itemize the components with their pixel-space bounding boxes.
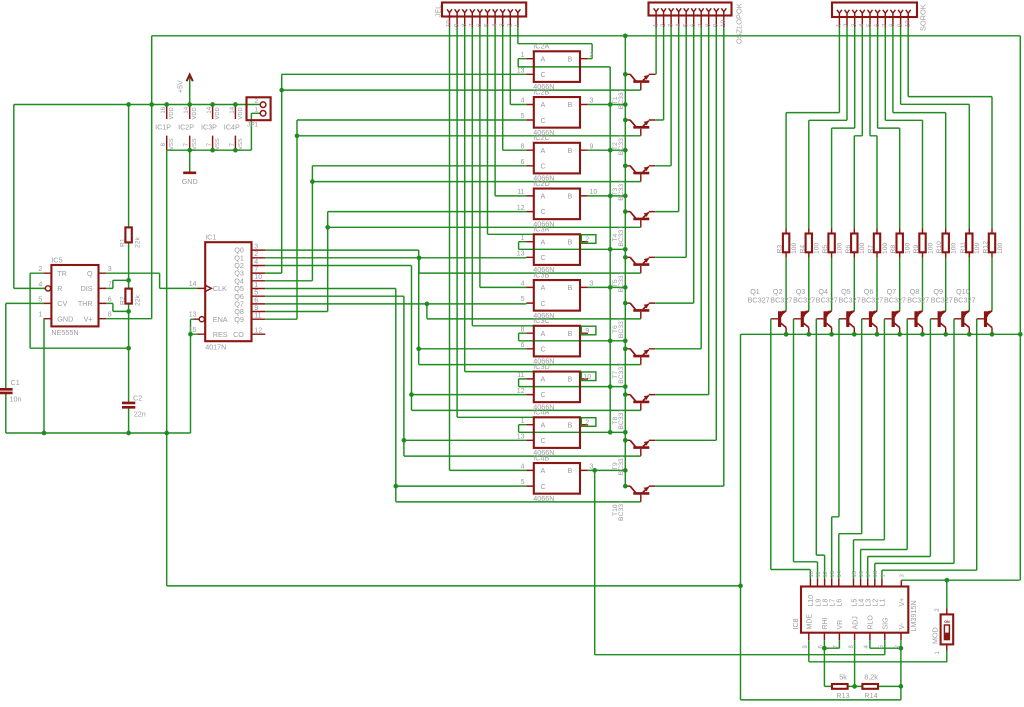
svg-text:1: 1	[521, 235, 525, 242]
svg-text:1: 1	[880, 574, 886, 577]
svg-text:IC2A: IC2A	[533, 42, 549, 51]
svg-text:C1: C1	[11, 378, 20, 387]
svg-text:C: C	[541, 207, 546, 216]
svg-text:5: 5	[866, 23, 873, 27]
svg-text:16: 16	[859, 571, 865, 577]
svg-text:5: 5	[682, 23, 689, 27]
svg-text:MOD: MOD	[930, 627, 939, 644]
svg-text:BC327: BC327	[861, 296, 883, 305]
svg-text:L10: L10	[808, 595, 815, 607]
svg-text:BC327: BC327	[816, 296, 838, 305]
svg-text:C: C	[541, 482, 546, 491]
svg-text:100: 100	[836, 242, 843, 254]
svg-text:1: 1	[254, 107, 258, 114]
svg-text:C: C	[541, 299, 546, 308]
svg-text:GND: GND	[57, 314, 73, 323]
svg-text:9: 9	[897, 23, 904, 27]
svg-text:13: 13	[517, 251, 525, 258]
svg-text:22k: 22k	[134, 294, 141, 306]
svg-text:IC2D: IC2D	[533, 179, 549, 188]
svg-text:4017N: 4017N	[205, 343, 226, 352]
svg-text:CO: CO	[233, 330, 244, 339]
svg-text:BC337: BC337	[618, 88, 625, 109]
svg-text:B: B	[568, 192, 573, 201]
svg-text:VSS: VSS	[215, 138, 221, 150]
svg-text:IC3P: IC3P	[201, 122, 217, 131]
svg-text:L5: L5	[851, 599, 858, 607]
svg-text:1: 1	[38, 312, 42, 319]
svg-text:VSS: VSS	[192, 138, 198, 150]
svg-text:12: 12	[823, 571, 829, 577]
svg-text:VDD: VDD	[192, 107, 198, 119]
svg-text:RLO: RLO	[868, 615, 875, 630]
svg-text:VSS: VSS	[169, 138, 175, 150]
svg-text:14: 14	[184, 106, 190, 113]
svg-text:B: B	[568, 466, 573, 475]
svg-text:6: 6	[521, 342, 525, 349]
svg-text:L6: L6	[837, 599, 844, 607]
svg-text:100: 100	[814, 242, 821, 254]
svg-text:BC327: BC327	[931, 296, 953, 305]
svg-text:3: 3	[900, 574, 906, 577]
svg-text:B: B	[568, 420, 573, 429]
svg-text:IC3C: IC3C	[533, 316, 549, 325]
svg-text:9: 9	[713, 23, 720, 27]
svg-text:15: 15	[852, 571, 858, 577]
svg-text:C: C	[541, 70, 546, 79]
svg-text:A: A	[541, 192, 546, 201]
svg-text:L4: L4	[858, 599, 865, 607]
svg-text:22n: 22n	[134, 410, 146, 419]
svg-text:BC327: BC327	[770, 296, 792, 305]
svg-text:BC337: BC337	[618, 180, 625, 201]
svg-text:A: A	[541, 100, 546, 109]
svg-text:2: 2	[585, 420, 589, 427]
svg-text:B: B	[568, 146, 573, 155]
svg-text:BC337: BC337	[618, 271, 625, 292]
svg-text:3: 3	[499, 23, 506, 27]
svg-text:R11: R11	[960, 241, 967, 253]
svg-text:8: 8	[521, 326, 525, 333]
svg-text:BC337: BC337	[618, 134, 625, 155]
svg-text:BC327: BC327	[748, 296, 770, 305]
svg-text:IC8: IC8	[791, 618, 800, 629]
svg-text:4: 4	[859, 23, 866, 27]
svg-text:A: A	[541, 420, 546, 429]
svg-text:14: 14	[230, 106, 236, 113]
svg-text:A: A	[541, 375, 546, 384]
svg-text:8: 8	[108, 312, 112, 319]
svg-text:BC337: BC337	[618, 226, 625, 247]
svg-text:BC337: BC337	[618, 317, 625, 338]
svg-text:IC1P: IC1P	[155, 122, 171, 131]
svg-text:L8: L8	[822, 599, 829, 607]
svg-text:R: R	[57, 284, 62, 293]
svg-text:B: B	[568, 329, 573, 338]
svg-text:JP1: JP1	[247, 122, 258, 129]
svg-text:R3: R3	[777, 245, 784, 254]
svg-text:1: 1	[652, 23, 659, 27]
svg-text:IC2C: IC2C	[533, 133, 549, 142]
svg-text:3: 3	[590, 98, 594, 105]
svg-text:9: 9	[590, 143, 594, 150]
svg-text:Q9: Q9	[234, 315, 244, 324]
svg-text:C2: C2	[133, 393, 142, 402]
svg-text:100: 100	[997, 242, 1004, 254]
svg-text:4: 4	[38, 281, 42, 288]
svg-text:B: B	[568, 375, 573, 384]
svg-text:R2: R2	[120, 296, 127, 305]
svg-text:V-: V-	[899, 622, 906, 629]
svg-text:IC2P: IC2P	[178, 122, 194, 131]
svg-text:VDD: VDD	[215, 107, 221, 119]
svg-text:2: 2	[507, 23, 514, 27]
svg-text:BC327: BC327	[839, 296, 861, 305]
svg-text:11: 11	[517, 189, 524, 196]
svg-text:BC327: BC327	[884, 296, 906, 305]
svg-text:VDD: VDD	[238, 107, 244, 119]
svg-text:IC5: IC5	[51, 255, 62, 264]
svg-text:3: 3	[851, 23, 858, 27]
svg-text:4: 4	[675, 23, 682, 27]
svg-text:IC3A: IC3A	[533, 225, 549, 234]
svg-text:10: 10	[583, 374, 591, 381]
svg-text:18: 18	[873, 571, 879, 577]
svg-text:R7: R7	[868, 245, 875, 254]
svg-text:5k: 5k	[839, 673, 847, 682]
svg-text:C: C	[541, 436, 546, 445]
svg-text:100: 100	[859, 242, 866, 254]
svg-text:BC337: BC337	[618, 363, 625, 384]
svg-text:8: 8	[521, 143, 525, 150]
svg-text:L1: L1	[880, 599, 887, 607]
svg-text:7: 7	[254, 267, 258, 274]
svg-text:3: 3	[108, 266, 112, 273]
svg-text:A: A	[541, 146, 546, 155]
svg-text:L7: L7	[830, 599, 837, 607]
svg-text:B: B	[568, 237, 573, 246]
svg-text:2: 2	[585, 237, 589, 244]
svg-text:NE555N: NE555N	[51, 328, 78, 337]
svg-text:2: 2	[38, 266, 42, 273]
svg-text:R8: R8	[890, 245, 897, 254]
svg-text:R10: R10	[936, 241, 943, 254]
svg-text:22k: 22k	[134, 236, 141, 248]
svg-text:14: 14	[207, 106, 213, 113]
svg-text:SOROK: SOROK	[919, 4, 928, 31]
svg-text:10: 10	[904, 20, 911, 27]
svg-text:BC337: BC337	[618, 454, 625, 475]
svg-text:IC4B: IC4B	[533, 453, 549, 462]
svg-text:3: 3	[590, 281, 594, 288]
svg-text:RHI: RHI	[822, 617, 829, 629]
svg-text:5: 5	[484, 23, 491, 27]
svg-text:4: 4	[521, 464, 525, 471]
svg-text:JEL: JEL	[434, 5, 443, 18]
svg-text:CLK: CLK	[213, 284, 227, 293]
svg-text:100: 100	[882, 242, 889, 254]
svg-text:ENA: ENA	[213, 315, 228, 324]
svg-text:17: 17	[866, 571, 872, 577]
svg-text:A: A	[541, 283, 546, 292]
svg-text:C: C	[541, 390, 546, 399]
svg-text:C: C	[541, 345, 546, 354]
svg-text:100: 100	[927, 242, 934, 254]
svg-text:10: 10	[590, 189, 598, 196]
svg-text:L2: L2	[873, 599, 880, 607]
svg-text:BC327: BC327	[907, 296, 929, 305]
svg-text:BC327: BC327	[793, 296, 815, 305]
svg-text:6: 6	[690, 23, 697, 27]
svg-text:100: 100	[974, 242, 981, 254]
svg-text:B: B	[568, 283, 573, 292]
svg-text:BC327: BC327	[954, 296, 976, 305]
svg-text:R5: R5	[822, 245, 829, 254]
svg-text:2: 2	[254, 98, 258, 105]
svg-text:R1: R1	[120, 238, 127, 247]
svg-text:4: 4	[521, 98, 525, 105]
svg-text:B: B	[568, 100, 573, 109]
svg-text:TR: TR	[57, 269, 67, 278]
svg-text:BC337: BC337	[618, 500, 625, 521]
svg-text:3: 3	[590, 464, 594, 471]
svg-text:6: 6	[874, 23, 881, 27]
svg-text:C: C	[541, 253, 546, 262]
svg-text:11: 11	[254, 313, 261, 320]
svg-text:13: 13	[517, 68, 525, 75]
svg-text:9: 9	[453, 23, 460, 27]
svg-text:R13: R13	[836, 691, 849, 700]
svg-text:8: 8	[705, 23, 712, 27]
svg-text:A: A	[541, 466, 546, 475]
svg-text:1: 1	[254, 282, 258, 289]
svg-text:10: 10	[809, 571, 815, 577]
svg-text:16: 16	[161, 106, 167, 113]
svg-text:5: 5	[38, 296, 42, 303]
svg-text:VR: VR	[837, 620, 844, 630]
svg-text:10: 10	[446, 20, 453, 27]
svg-text:5: 5	[254, 290, 258, 297]
svg-text:DIS: DIS	[81, 284, 93, 293]
svg-text:BC337: BC337	[618, 409, 625, 430]
svg-text:10: 10	[720, 20, 727, 27]
svg-text:VSS: VSS	[238, 138, 244, 150]
svg-text:11: 11	[517, 372, 524, 379]
svg-text:13: 13	[517, 434, 525, 441]
svg-text:ADJ: ADJ	[852, 616, 859, 629]
svg-text:6: 6	[476, 23, 483, 27]
svg-text:100: 100	[905, 242, 912, 254]
svg-text:R12: R12	[983, 241, 990, 254]
svg-text:7: 7	[697, 23, 704, 27]
svg-text:5: 5	[521, 113, 525, 120]
svg-text:MDE: MDE	[807, 614, 814, 630]
svg-text:CV: CV	[57, 299, 67, 308]
svg-text:IC3B: IC3B	[533, 270, 549, 279]
svg-text:14: 14	[837, 570, 843, 577]
svg-text:2: 2	[843, 23, 850, 27]
svg-text:IC4A: IC4A	[533, 408, 549, 417]
svg-text:7: 7	[469, 23, 476, 27]
svg-text:IC1: IC1	[205, 233, 216, 242]
svg-text:R9: R9	[913, 245, 920, 254]
svg-text:VDD: VDD	[169, 107, 175, 119]
svg-text:A: A	[541, 329, 546, 338]
svg-text:100: 100	[791, 242, 798, 254]
svg-text:+5V: +5V	[177, 80, 184, 93]
svg-text:V+: V+	[84, 314, 93, 323]
svg-text:2: 2	[660, 23, 667, 27]
svg-text:100: 100	[951, 242, 958, 254]
svg-text:8: 8	[461, 23, 468, 27]
svg-text:A: A	[541, 54, 546, 63]
svg-text:SIG: SIG	[883, 617, 890, 629]
svg-text:R6: R6	[845, 245, 852, 254]
svg-text:1: 1	[521, 418, 525, 425]
svg-text:C: C	[541, 116, 546, 125]
svg-text:11: 11	[816, 571, 822, 577]
svg-text:6: 6	[108, 296, 112, 303]
svg-text:ON: ON	[944, 620, 950, 624]
svg-text:2: 2	[254, 251, 258, 258]
svg-text:12: 12	[517, 388, 525, 395]
svg-text:12: 12	[254, 328, 262, 335]
svg-text:6: 6	[521, 159, 525, 166]
svg-text:7: 7	[882, 23, 889, 27]
svg-text:8,2k: 8,2k	[864, 673, 878, 682]
svg-text:10n: 10n	[10, 395, 22, 404]
svg-text:R14: R14	[864, 691, 877, 700]
svg-text:4066N: 4066N	[533, 494, 554, 503]
svg-text:RES: RES	[213, 330, 228, 339]
svg-text:5: 5	[521, 479, 525, 486]
svg-text:9: 9	[585, 328, 589, 335]
svg-text:13: 13	[189, 312, 197, 319]
svg-text:OSZLOPOK: OSZLOPOK	[735, 3, 744, 44]
svg-text:C: C	[541, 162, 546, 171]
svg-text:3: 3	[254, 244, 258, 251]
svg-text:L9: L9	[815, 599, 822, 607]
svg-text:2: 2	[590, 52, 594, 59]
svg-text:4: 4	[491, 23, 498, 27]
svg-text:1: 1	[521, 52, 525, 59]
svg-text:GND: GND	[182, 177, 198, 186]
svg-text:R4: R4	[799, 245, 806, 254]
svg-text:THR: THR	[78, 299, 93, 308]
svg-text:IC3D: IC3D	[533, 362, 549, 371]
svg-text:10: 10	[254, 274, 262, 281]
svg-text:12: 12	[517, 205, 525, 212]
svg-text:4: 4	[521, 281, 525, 288]
svg-text:A: A	[541, 237, 546, 246]
svg-text:13: 13	[830, 571, 836, 577]
svg-text:9: 9	[254, 305, 258, 312]
svg-text:V+: V+	[899, 598, 906, 607]
svg-text:Q: Q	[87, 269, 93, 278]
svg-text:7: 7	[108, 281, 112, 288]
svg-text:IC2B: IC2B	[533, 88, 549, 97]
svg-text:L3: L3	[866, 599, 873, 607]
svg-text:IC4P: IC4P	[224, 122, 240, 131]
svg-text:14: 14	[189, 281, 197, 288]
svg-text:8: 8	[889, 23, 896, 27]
svg-text:B: B	[568, 54, 573, 63]
svg-text:1: 1	[514, 23, 521, 27]
svg-text:LM3915N: LM3915N	[909, 600, 918, 631]
svg-text:3: 3	[667, 23, 674, 27]
svg-text:5: 5	[521, 296, 525, 303]
svg-text:6: 6	[254, 297, 258, 304]
svg-text:15: 15	[189, 327, 197, 334]
svg-text:4: 4	[254, 259, 258, 266]
svg-text:1: 1	[836, 23, 843, 27]
